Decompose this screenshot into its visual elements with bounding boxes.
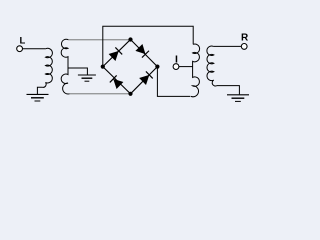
transformer T1 primary winding (left coil) xyxy=(42,48,52,87)
svg-text:L: L xyxy=(19,35,25,46)
terminal R xyxy=(241,44,247,50)
wire T1 top to bridge top node xyxy=(68,39,130,41)
wire coil bottom to ground xyxy=(37,87,42,94)
transformer T2 secondary winding (right coil) xyxy=(207,46,217,86)
diode D3 (points to right node) xyxy=(139,75,149,85)
bridge node dots xyxy=(128,37,132,41)
wire T1 centre tap to ground xyxy=(68,68,87,75)
ground (centre tap) xyxy=(78,75,96,81)
transformer T1 secondary winding (centre-tapped) xyxy=(61,39,69,94)
diode bridge diamond xyxy=(103,40,158,94)
diode D4 (points to left node) xyxy=(113,79,123,89)
ground (right) xyxy=(227,95,249,102)
wire coil bottom to ground (right) xyxy=(217,86,240,95)
ground (left) xyxy=(27,94,49,101)
wire L to coil xyxy=(22,48,46,50)
diode D2 (points to right node) xyxy=(135,44,145,54)
wire T1 bottom to bridge bottom node xyxy=(70,93,131,95)
wire bridge right node to T2 bottom rail xyxy=(157,67,190,97)
terminal L xyxy=(17,46,23,52)
wire I to T2 centre tap xyxy=(179,66,193,68)
terminal I xyxy=(173,64,179,70)
diode D1 (points to top node) xyxy=(109,51,119,61)
transformer T2 primary winding (centre-tapped) xyxy=(191,44,200,97)
svg-text:R: R xyxy=(241,32,249,43)
wire R to coil xyxy=(213,45,241,47)
wire bridge left node over the top to T2 xyxy=(103,26,193,66)
